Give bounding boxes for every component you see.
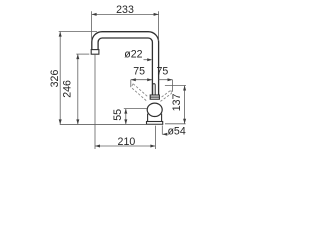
dashed handle swing position left — [131, 84, 147, 101]
dimension 55 (body bottom height) — [124, 109, 147, 125]
dimension label ø54 with leader — [162, 125, 167, 134]
dimension 326 (total height) — [59, 32, 97, 125]
body neck below circle — [148, 114, 162, 122]
svg-text:ø22: ø22 — [124, 49, 142, 61]
svg-text:137: 137 — [171, 93, 183, 111]
faucet tube (L-shaped spout, outer and inner contour) — [92, 32, 159, 95]
dimension 137 (handle height) — [165, 86, 186, 124]
svg-text:ø54: ø54 — [167, 126, 185, 138]
dashed handle swing position right — [160, 90, 171, 101]
dimension 75 75 (handle swing) — [131, 80, 173, 92]
dimension 246 (spout height) — [76, 54, 89, 124]
valve body circle — [147, 103, 162, 116]
base plate — [147, 122, 163, 125]
lever handle rod — [153, 84, 156, 96]
svg-text:246: 246 — [61, 80, 73, 98]
svg-text:233: 233 — [116, 4, 134, 16]
svg-text:75: 75 — [133, 66, 145, 78]
handle hub collar — [150, 95, 159, 99]
svg-text:210: 210 — [118, 136, 136, 148]
dimension 210 (reach) — [95, 54, 155, 149]
svg-text:326: 326 — [49, 70, 61, 88]
svg-text:55: 55 — [112, 109, 124, 121]
svg-text:75: 75 — [157, 66, 169, 78]
spout aerator cap — [91, 50, 99, 55]
deck / counter line — [60, 123, 163, 125]
dimension 233 (top width) — [92, 11, 159, 41]
